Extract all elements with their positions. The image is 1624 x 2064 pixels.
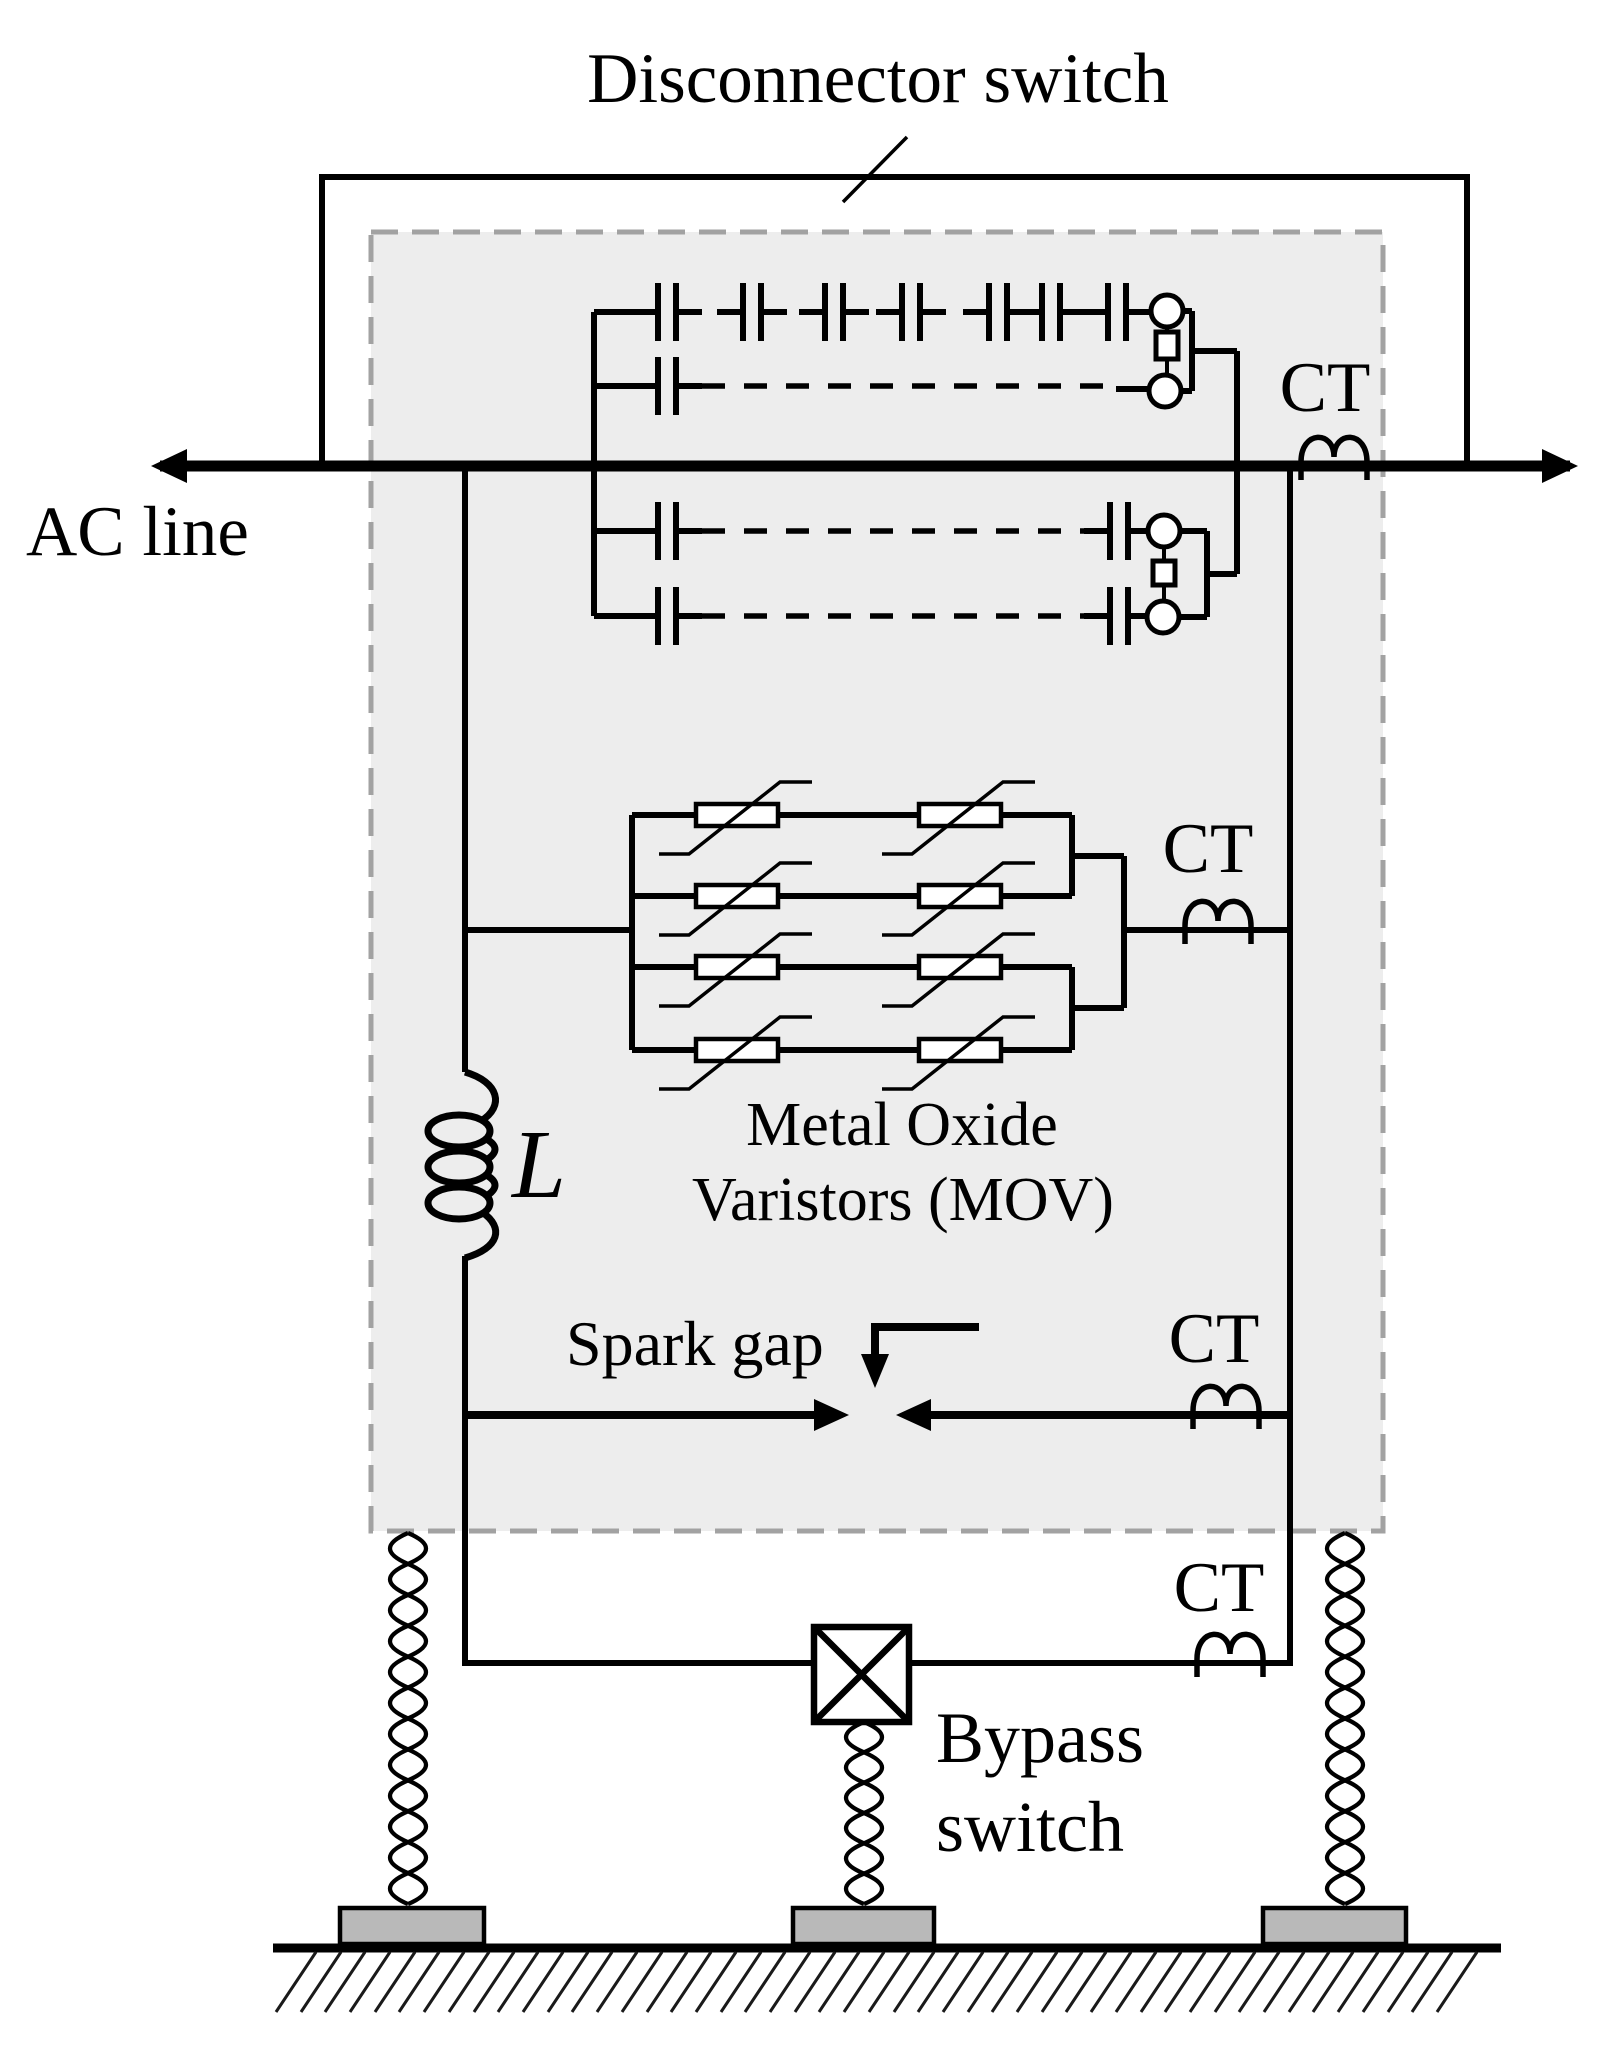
right footing pad <box>1263 1908 1406 1944</box>
capacitor C1a (series string row 1) <box>632 283 702 341</box>
varistor MOV4a <box>659 1017 812 1089</box>
wire: row4 lead from bus <box>594 613 660 619</box>
varistor MOV3b <box>882 934 1035 1006</box>
wire: MOV feed <box>465 927 632 933</box>
wire: capacitor bank left bus <box>591 312 597 616</box>
fuse element (small box) <box>1153 547 1175 601</box>
varistor MOV4b <box>882 1017 1035 1089</box>
wire: left platform bus (upper) <box>462 466 468 1072</box>
AC line right arrowhead <box>1542 449 1578 483</box>
wire: MOV row 2 <box>632 893 696 899</box>
capacitor C1b (series string row 1) <box>717 283 787 341</box>
svg-text:Varistors (MOV): Varistors (MOV) <box>692 1166 1114 1234</box>
AC line (thick bus) <box>160 461 1570 472</box>
svg-text:Disconnector switch: Disconnector switch <box>587 40 1169 118</box>
svg-text:AC line: AC line <box>26 493 249 571</box>
fuse/damper assembly bottom group: upper circle <box>1148 515 1180 547</box>
ground line <box>273 1944 1501 1953</box>
wire: bypass branch <box>465 1660 1290 1666</box>
CT coil on bypass branch <box>1197 1634 1263 1677</box>
fuse element (small box) <box>1156 327 1178 375</box>
capacitor C4a (row 4) <box>632 587 702 645</box>
spark gap left electrode <box>465 1411 818 1419</box>
capacitor C1c (series string row 1) <box>799 283 869 341</box>
capacitor C3b (row 3) <box>1084 502 1154 560</box>
CT coil on AC line <box>1301 437 1367 480</box>
svg-text:CT: CT <box>1280 349 1371 427</box>
svg-text:Metal Oxide: Metal Oxide <box>746 1091 1058 1159</box>
wire: MOV left bus <box>629 815 635 1050</box>
platform (gray dashed enclosure) <box>371 232 1383 1531</box>
wire: MOV row 1 <box>632 812 696 818</box>
wire: MOV row 3 <box>632 964 696 970</box>
spark gap trigger electrode <box>875 1327 979 1356</box>
svg-text:CT: CT <box>1169 1300 1260 1378</box>
wire: row3 lead from bus <box>594 528 660 534</box>
capacitor C1g (series string row 1) <box>1082 283 1152 341</box>
fuse/damper assembly bottom group: lower circle <box>1147 601 1179 633</box>
svg-text:switch: switch <box>936 1787 1124 1867</box>
wire: row2 lead to fuse <box>1116 386 1150 392</box>
AC line left arrowhead <box>151 449 187 483</box>
capacitor C1f (series string row 1) <box>1016 283 1086 341</box>
bypass switch (box with X) <box>814 1627 909 1722</box>
wire: bottom fuse bracket <box>1179 531 1237 617</box>
right support insulator <box>1327 1533 1363 1904</box>
CT coil on spark gap branch <box>1193 1386 1259 1429</box>
wire: capacitor bank right bus <box>1234 351 1240 574</box>
wire: row4 lead to fuse <box>1128 613 1147 619</box>
varistor MOV2b <box>882 863 1035 935</box>
middle footing pad <box>793 1908 934 1944</box>
bypass switch insulator <box>846 1722 882 1904</box>
wire: row4 dashed continuation <box>702 613 1085 619</box>
trigger arrowhead <box>861 1354 889 1388</box>
capacitor C3a (row 3) <box>632 502 702 560</box>
wire: MOV right collector (rows 1-2) <box>1072 815 1124 896</box>
wire: left platform bus (lower) <box>462 1256 468 1666</box>
svg-text:Spark gap: Spark gap <box>566 1308 824 1379</box>
CT coil on MOV branch <box>1185 901 1251 944</box>
fuse/damper assembly top group: lower circle <box>1149 375 1181 407</box>
left support insulator <box>390 1533 426 1904</box>
spark gap right arrowhead <box>896 1399 931 1431</box>
svg-text:Bypass: Bypass <box>936 1698 1144 1778</box>
capacitor C4b (row 4) <box>1084 587 1154 645</box>
disconnector switch blade (slash) <box>843 137 907 202</box>
wire: MOV right collector (rows 3-4) <box>1072 967 1124 1050</box>
varistor MOV1b <box>882 782 1035 854</box>
inductor L coil <box>428 1072 496 1258</box>
capacitor C1d (series string row 1) <box>876 283 946 341</box>
wire: top fuse bracket <box>1181 311 1237 391</box>
left footing pad <box>340 1908 484 1944</box>
wire: row1 lead from bus <box>594 309 660 315</box>
wire: disconnector bypass loop <box>322 177 1467 467</box>
wire: right platform bus <box>1287 466 1293 1666</box>
varistor MOV3a <box>659 934 812 1006</box>
svg-text:CT: CT <box>1174 1549 1265 1627</box>
capacitor C1e (series string row 1) <box>963 283 1033 341</box>
spark gap left arrowhead <box>814 1399 849 1431</box>
varistor MOV1a <box>659 782 812 854</box>
wire: row3 dashed continuation <box>702 528 1085 534</box>
wire: row3 lead to fuse <box>1128 528 1149 534</box>
wire: MOV output bus <box>1124 856 1290 1008</box>
wire: row1 lead to fuse <box>1126 309 1152 315</box>
svg-text:L: L <box>510 1111 566 1218</box>
wire: MOV row 4 <box>632 1047 696 1053</box>
wire: row2 dashed continuation <box>702 383 1118 389</box>
wire: row2 lead from bus <box>594 383 660 389</box>
svg-text:CT: CT <box>1163 810 1254 888</box>
fuse/damper assembly top group: upper circle <box>1151 295 1183 327</box>
varistor MOV2a <box>659 863 812 935</box>
capacitor C2a (row 2) <box>632 357 702 415</box>
ground hatching <box>276 1952 1477 2012</box>
spark gap right electrode <box>928 1411 1290 1419</box>
